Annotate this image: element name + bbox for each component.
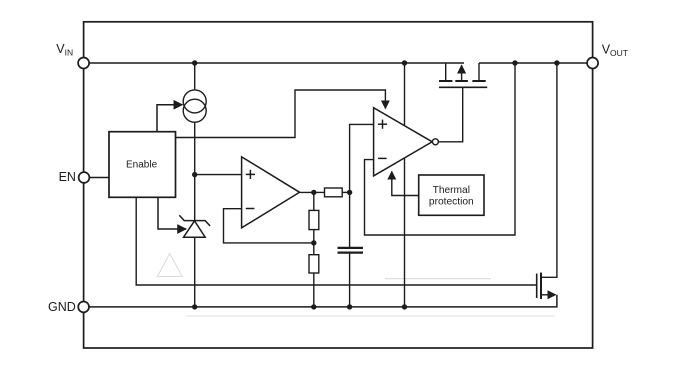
junction dot capacitor GND xyxy=(347,304,352,309)
svg-text:Thermal: Thermal xyxy=(433,185,470,196)
junction dot feedback node xyxy=(311,240,316,245)
wire Enable to zener with arrow xyxy=(158,197,186,229)
junction dot zener GND xyxy=(192,304,197,309)
junction dot VIN supply xyxy=(402,60,407,65)
label U1 minus xyxy=(246,208,255,210)
wire comparator node down to capacitor xyxy=(349,192,351,247)
wire U1 output xyxy=(300,191,325,193)
Q2 gate bar xyxy=(536,274,538,299)
resistor R3 horizontal xyxy=(325,188,343,197)
op-amp U1 error amplifier xyxy=(242,157,300,228)
wire R1 to R2 xyxy=(313,230,315,255)
junction dot NMOS drain at VOUT xyxy=(554,60,559,65)
Q2 source lead with arrow xyxy=(541,294,556,296)
wire enable signal to U2 with arrow xyxy=(176,90,386,138)
wire reference node vertical (VIN to current source to zener to GND) xyxy=(194,63,196,90)
svg-text:Enable: Enable xyxy=(126,160,158,171)
watermark faint line 2 xyxy=(186,315,555,317)
svg-text:protection: protection xyxy=(429,196,474,207)
node VIN terminal xyxy=(78,58,89,69)
wire GND rail xyxy=(84,295,557,307)
wire reference to error amp + xyxy=(195,174,242,176)
junction dot R2 GND xyxy=(311,304,316,309)
svg-text:VIN: VIN xyxy=(56,42,73,57)
zener diode D1 xyxy=(179,215,210,237)
wire Enable block bottom to NMOS gate xyxy=(136,197,537,285)
capacitor C1 xyxy=(338,248,364,253)
watermark faint line 1 xyxy=(385,278,491,280)
svg-text:EN: EN xyxy=(59,170,76,184)
label U2 plus xyxy=(378,120,387,129)
wire capacitor to GND xyxy=(349,254,351,307)
wire U1 feedback (minus input) xyxy=(224,209,315,243)
wire VIN rail xyxy=(84,62,464,64)
svg-text:VOUT: VOUT xyxy=(602,43,628,58)
Q1 channel segments xyxy=(439,80,452,82)
op-amp U2 comparator xyxy=(374,108,433,176)
Q2 channel bar xyxy=(540,273,542,299)
Q1 gate bar xyxy=(439,86,487,88)
resistor R1 xyxy=(309,210,319,229)
Q1 body arrow xyxy=(461,65,463,80)
Q1 source stub xyxy=(445,63,447,80)
block Thermal protection xyxy=(419,175,484,215)
transistor Q2 NMOS discharge xyxy=(537,273,556,299)
junction dot comparator node xyxy=(347,190,352,195)
wire comparator node up to U2 plus xyxy=(350,124,374,192)
node EN terminal xyxy=(79,172,90,183)
wire VOUT down to NMOS drain xyxy=(541,63,557,277)
junction dot supply to GND xyxy=(402,304,407,309)
wire U2 minus feedback loop to VOUT xyxy=(365,63,516,235)
junction dot VOUT feedback xyxy=(512,60,517,65)
watermark triangle xyxy=(158,254,183,277)
svg-text:GND: GND xyxy=(48,300,76,314)
node U2 output bubble xyxy=(432,139,438,145)
wire U2 output to PMOS gate xyxy=(438,87,462,142)
wire Thermal protection to U2 with arrow xyxy=(392,172,419,196)
wire R3 to comparator node xyxy=(342,191,349,193)
current source I1 xyxy=(183,90,206,113)
wire VOUT rail xyxy=(479,62,593,64)
junction dot reference rail xyxy=(192,60,197,65)
block Enable xyxy=(109,132,176,198)
wire VIN supply through U2 to GND xyxy=(404,63,406,307)
label U2 minus xyxy=(378,157,387,159)
node VOUT terminal xyxy=(587,58,598,69)
Q1 drain stub xyxy=(478,63,480,80)
wire Enable to current source with arrow xyxy=(157,105,182,132)
resistor R2 xyxy=(309,255,319,273)
wire R1 top lead xyxy=(313,192,315,210)
wire EN to Enable block xyxy=(89,177,109,179)
wire R2 bottom lead to GND xyxy=(313,273,315,307)
label U1 plus xyxy=(246,170,255,179)
IC outline box xyxy=(84,22,593,348)
junction dot reference to error amp xyxy=(192,172,197,177)
transistor Q1 PMOS pass element xyxy=(439,63,487,87)
junction dot U1 output xyxy=(311,190,316,195)
node GND terminal xyxy=(78,302,89,313)
